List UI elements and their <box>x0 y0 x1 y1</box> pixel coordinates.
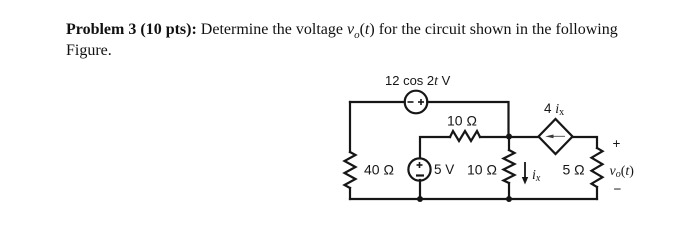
wire right branch lower <box>596 187 598 199</box>
resistor R3 10ohm vertical zigzag <box>504 150 515 183</box>
svg-text:5 Ω: 5 Ω <box>563 162 585 178</box>
resistor R4 5ohm zigzag <box>592 148 603 187</box>
wire left branch lower <box>349 188 351 199</box>
wire 5V source to bottom <box>419 180 421 199</box>
node dot bottom at 10ohm <box>506 196 512 202</box>
V1 polarity minus plus <box>408 99 425 105</box>
voltage source V1 12cos2t circle <box>405 91 428 114</box>
wire top-right segment with corner down to node <box>427 102 508 137</box>
wire middle-left corner <box>420 137 450 158</box>
wire left branch upper <box>349 102 351 152</box>
resistor R3 10ohm vertical bottom wire <box>508 183 510 199</box>
resistor R2 10ohm horizontal zigzag <box>450 131 480 141</box>
svg-text:vo(t): vo(t) <box>610 164 635 180</box>
node dot bottom at 5V <box>417 196 423 202</box>
dependent source U1 4ix diamond <box>539 119 573 154</box>
voltage source V2 5V circle <box>408 158 430 180</box>
svg-text:4 ix: 4 ix <box>544 101 564 118</box>
resistor R3 10ohm vertical top wire <box>508 137 510 151</box>
svg-text:12 cos 2t V: 12 cos 2t V <box>385 73 451 89</box>
wire bottom <box>350 198 597 200</box>
svg-text:ix: ix <box>532 168 541 184</box>
current arrow ix down <box>522 162 528 185</box>
svg-text:+: + <box>613 136 621 151</box>
wire top-left segment <box>350 101 405 103</box>
dependent source arrow left <box>545 135 565 139</box>
node dot middle junction <box>506 134 512 140</box>
V2 polarity plus top minus bottom <box>416 162 424 176</box>
wire diamond to right branch corner <box>573 137 598 148</box>
svg-text:10 Ω: 10 Ω <box>467 162 497 178</box>
svg-text:−: − <box>614 182 622 197</box>
resistor R1 40ohm zigzag <box>345 152 356 188</box>
svg-text:10 Ω: 10 Ω <box>447 113 477 129</box>
svg-text:5 V: 5 V <box>434 162 454 177</box>
svg-text:40 Ω: 40 Ω <box>364 162 394 178</box>
wire middle to diamond <box>480 136 539 138</box>
